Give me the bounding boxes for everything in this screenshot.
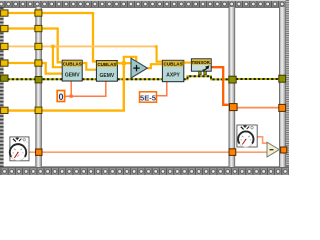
structure: bottom film bar [0, 167, 289, 176]
wire: tunnel to tunnel (y107.6) between right bars [236, 107, 279, 109]
wire: clock2 output to small triangle [257, 137, 267, 143]
svg-text:5E-5: 5E-5 [140, 93, 157, 102]
constant: 0 [57, 91, 64, 102]
structure: sequence right inner bar (x279-286) [279, 7, 286, 167]
wire: array wire (y110) from left tunnels up x123.8 to add node [3, 63, 124, 110]
svg-text:GEMV: GEMV [65, 72, 80, 78]
wire: small triangle output to tunnel [279, 149, 282, 151]
junction square at add inputs [122, 61, 126, 65]
wire: 5E-5 constant to AXPY bottom input [157, 82, 167, 96]
wire: bump over add node top input [124, 57, 136, 63]
wire: pale scalar wire (y46) long, to AXPY input 1 [3, 45, 156, 47]
tunnels on separator bar 1 [35, 10, 42, 156]
wire: branch from y46 wire down x52.9 to GEMV1 input 2 [53, 46, 63, 67]
tunnels on separator bar 2 [229, 76, 237, 155]
node: CUBLAS GEMV 1 [62, 60, 82, 81]
structure: left striped border [0, 0, 4, 175]
wire: GEMV1 output to GEMV2 input 2 [82, 63, 97, 70]
svg-text:AXPY: AXPY [166, 73, 180, 79]
svg-text:0: 0 [58, 92, 63, 102]
constant: 5E-5 [140, 92, 157, 103]
node: small cream triangle [267, 142, 279, 157]
svg-text:CUBLAS: CUBLAS [97, 62, 116, 67]
svg-text:TENSOR.: TENSOR. [192, 60, 212, 65]
node: CUBLAS GEMV 2 [96, 61, 118, 82]
wire: AXPY output to TENSOR input [184, 61, 192, 63]
svg-text:CUBLAS: CUBLAS [164, 62, 183, 67]
wire: 0 constant to GEMV bottom inputs [65, 81, 106, 96]
wire: array wire 2 (y28.5) down x57.7 to GEMV1 input 1 [3, 29, 63, 63]
structure: frame separator bar 2 (x228.5-235) [229, 7, 236, 167]
junction dot on y46 wire [51, 45, 54, 48]
wire: array wire 1 (y13) into frame2, down x93 to GEMV2 top input [3, 13, 97, 62]
tunnels on left border (gold) [1, 10, 8, 114]
node: CUBLAS AXPY [162, 60, 184, 81]
wire: TENSOR output down to tunnel [211, 67, 230, 105]
svg-text:GEMV: GEMV [100, 73, 115, 79]
svg-text:CUBLAS: CUBLAS [63, 62, 82, 67]
structure: frame separator bar 1 (x35.5-41.5) [35, 7, 41, 167]
wire: add output to AXPY input 2 [147, 64, 162, 68]
structure: right striped border [286, 0, 289, 175]
node: add function [131, 58, 147, 78]
error wire (dashed olive), drawn first so blocks cover it [3, 76, 279, 79]
node: TENSOR block [191, 59, 211, 75]
node: wait ms clock 1 [10, 137, 29, 161]
wire: GEMV2 output to junction [118, 62, 132, 64]
node: wait ms clock 2 [237, 125, 257, 147]
wire: clock1 long wire y152.2 [29, 151, 268, 153]
wire: array wire 4 (y63) down x45.7 to GEMV1 input 3 [3, 63, 63, 74]
structure: flat sequence top film bar [0, 0, 289, 8]
tunnels on right inner bar [279, 75, 287, 153]
